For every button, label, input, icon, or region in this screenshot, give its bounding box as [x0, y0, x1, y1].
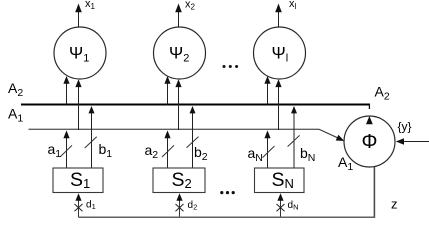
svg-text:xl: xl	[289, 0, 297, 11]
svg-text:Φ: Φ	[362, 131, 378, 153]
svg-text:Ψl: Ψl	[272, 43, 289, 64]
svg-text:z: z	[391, 197, 398, 212]
svg-text:x2: x2	[185, 0, 196, 12]
svg-text:{y}: {y}	[398, 120, 412, 134]
svg-text:x1: x1	[85, 0, 96, 11]
